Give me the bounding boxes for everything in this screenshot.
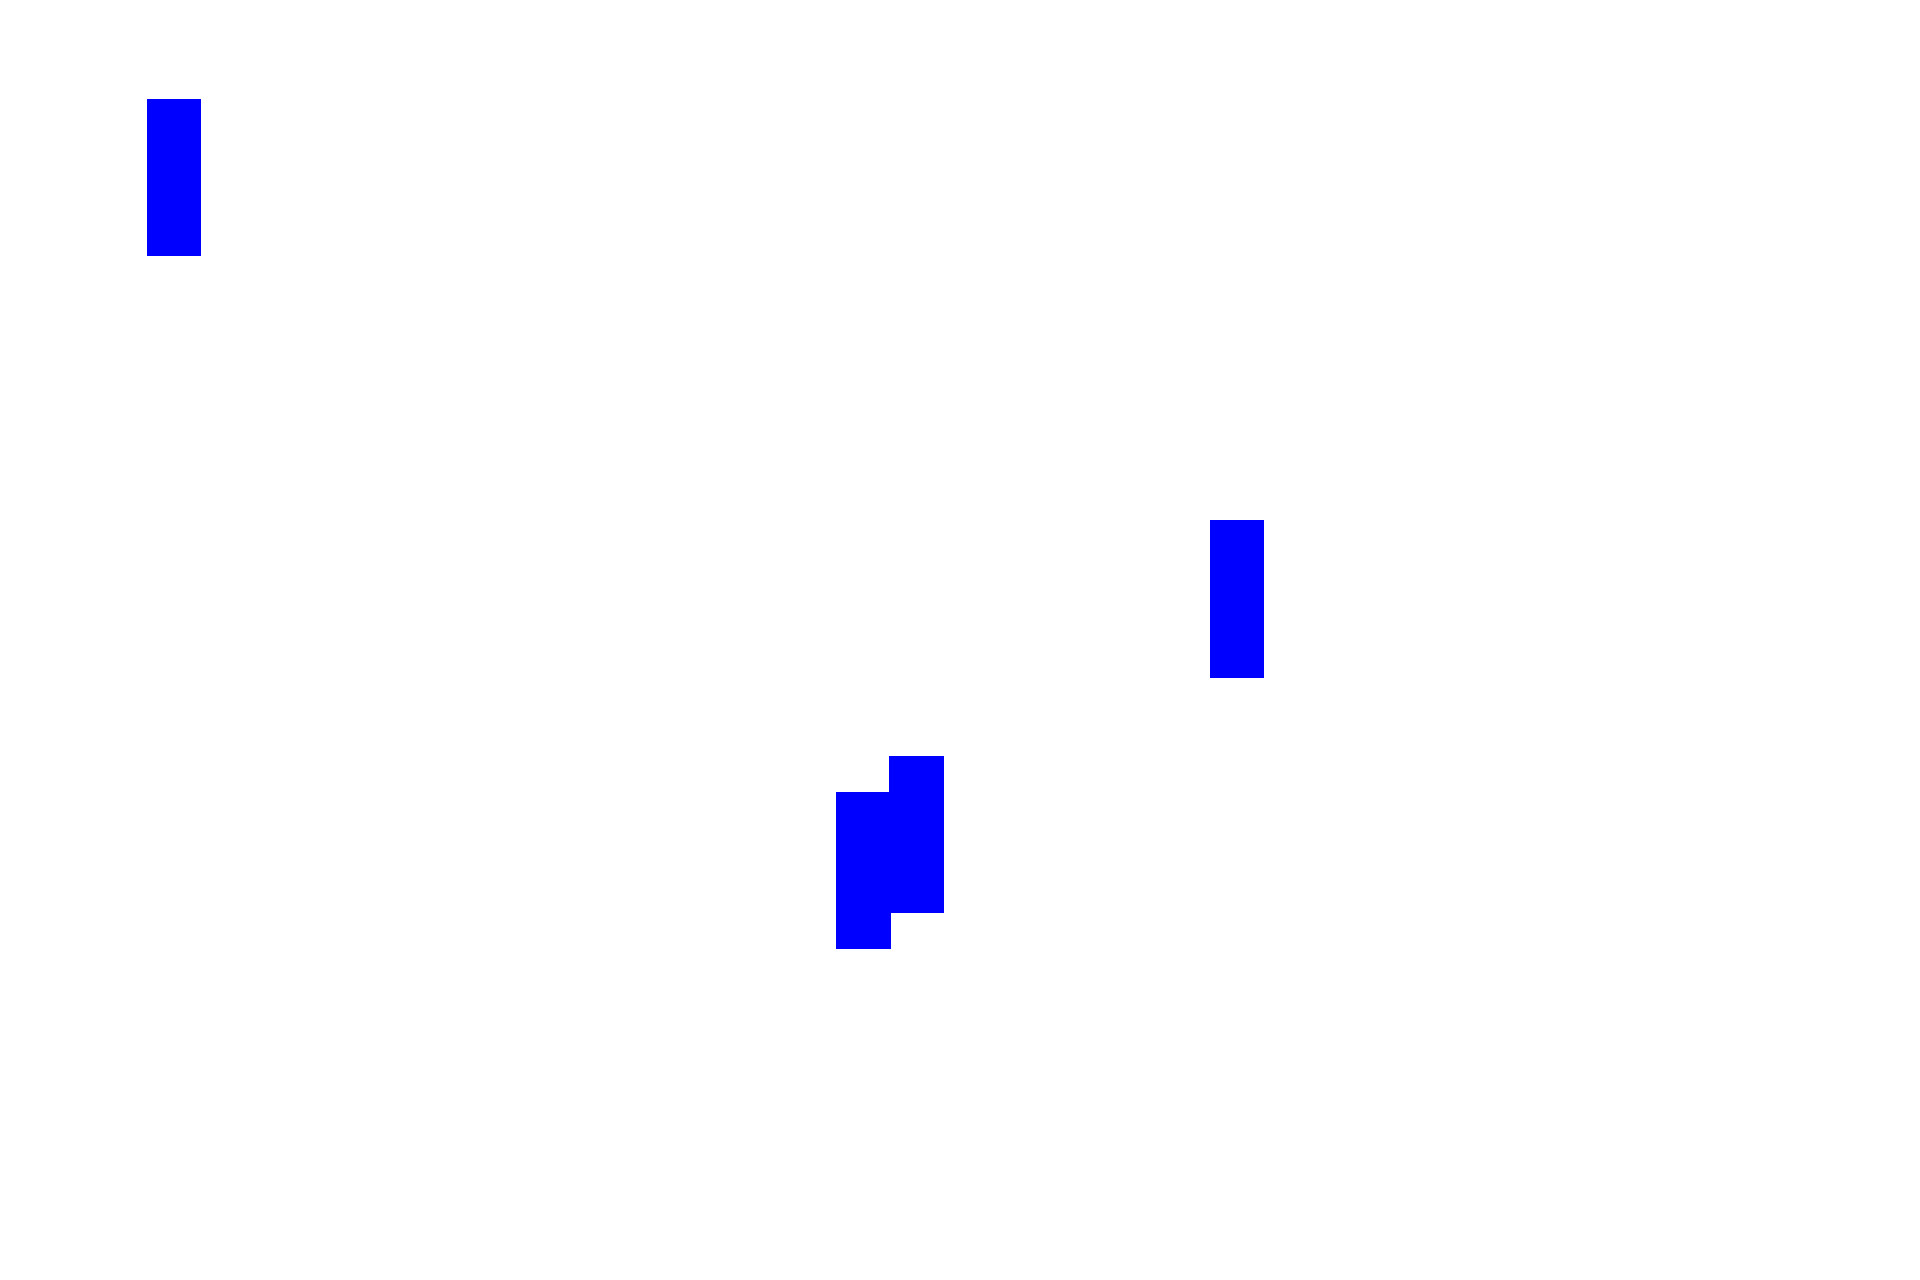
blue rectangle 1 (top-left)	[147, 99, 201, 256]
blue rectangle 3 (upper-right part of merged pair)	[889, 756, 944, 914]
blue rectangle 2 (middle-right)	[1210, 520, 1264, 678]
blue rectangle 4 (lower-left part of merged pair)	[836, 792, 891, 949]
